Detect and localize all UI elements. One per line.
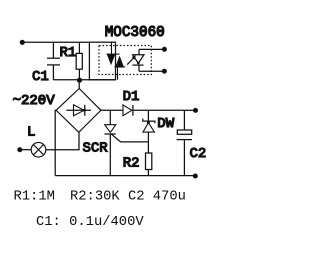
resistor R2	[146, 153, 152, 176]
svg-text:R1: R1	[60, 45, 77, 61]
photo-triac	[132, 49, 144, 71]
gate	[111, 134, 148, 142]
svg-text:DW: DW	[157, 116, 174, 132]
svg-text:SCR: SCR	[83, 141, 109, 157]
svg-text:R2:30K: R2:30K	[70, 189, 120, 204]
terminal dot output top	[162, 47, 167, 52]
diode D1	[123, 105, 184, 116]
svg-text:MOC3060: MOC3060	[105, 25, 165, 41]
svg-text:D1: D1	[123, 89, 140, 105]
svg-text:R1:1M: R1:1M	[14, 189, 55, 204]
capacitor C1	[47, 42, 60, 80]
capacitor C2 electrolytic	[177, 110, 192, 175]
svg-text:L: L	[27, 125, 35, 141]
svg-text:470u: 470u	[153, 189, 186, 204]
wire bridge left vertex down to bottom rail	[54, 110, 57, 175]
wire output bottom	[139, 70, 164, 72]
wire output top	[139, 48, 164, 50]
wire to right terminal	[184, 109, 195, 111]
svg-text:R2: R2	[123, 156, 140, 172]
svg-text:C2: C2	[128, 189, 145, 204]
svg-text:C1: C1	[32, 69, 49, 85]
svg-text:C1: 0.1u/400V: C1: 0.1u/400V	[36, 214, 144, 230]
terminal dot bottom-left	[17, 147, 22, 152]
resistor R1	[76, 42, 82, 80]
node A terminal dot top-left	[20, 40, 25, 45]
wire top rail	[22, 41, 89, 43]
inner diode	[66, 109, 91, 111]
triac (filled) inside solid box	[107, 42, 126, 80]
wire node to optocoupler	[79, 79, 115, 81]
terminal dot right-top	[193, 108, 198, 113]
zener diode DW	[143, 110, 155, 153]
wire dot to lamp	[20, 149, 31, 151]
light arrow	[127, 55, 136, 64]
wire bottom rail	[55, 175, 195, 177]
bridge rectifier	[56, 89, 101, 133]
lamp L	[31, 142, 46, 157]
svg-text:C2: C2	[190, 146, 207, 162]
wire lamp to bridge bottom	[46, 132, 79, 149]
junction node dot	[77, 78, 82, 83]
terminal dot output bottom	[162, 69, 167, 74]
dashed box	[99, 46, 151, 75]
terminal dot bottom-right	[193, 174, 198, 179]
op-amp U1 MOC3060 optocoupler	[89, 42, 166, 80]
wire node to bridge top	[78, 80, 80, 89]
solid box	[89, 42, 115, 80]
svg-text:~220V: ~220V	[13, 93, 56, 109]
wire C1 bottom to node	[53, 79, 79, 81]
wire bridge right vertex to D1	[101, 109, 123, 111]
transistor SCR thyristor	[104, 110, 148, 175]
